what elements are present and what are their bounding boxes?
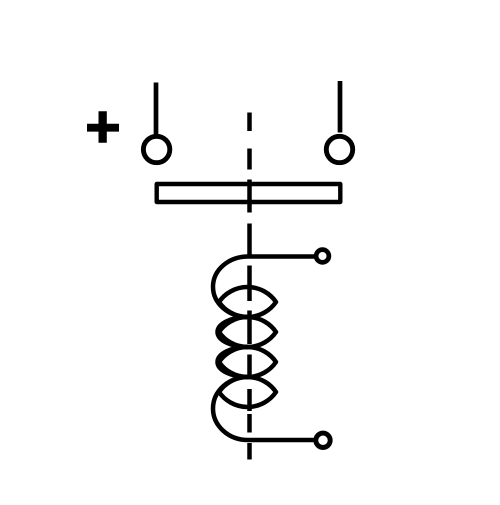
wire: left terminal lead [154, 83, 159, 135]
coil turn 4 [219, 377, 276, 407]
node: right terminal circle [326, 136, 352, 162]
coil L1 [213, 250, 330, 448]
node: left terminal circle [143, 136, 169, 162]
dashed actuator line [247, 113, 252, 460]
coil turn 3 [219, 347, 276, 377]
wire: right terminal lead [338, 81, 343, 133]
coil return arc 2 [218, 347, 249, 377]
coil turn 1 [219, 287, 276, 317]
wire: coil bottom lead [248, 438, 314, 443]
coil return arc 1 [218, 317, 249, 347]
node: coil terminal top circle [316, 250, 329, 263]
coil entry arc [213, 257, 248, 318]
coil turn 2 [219, 317, 276, 347]
coil exit arc [213, 377, 248, 440]
contact bridge bar [157, 184, 341, 202]
wire: coil top lead [248, 254, 316, 259]
node: coil terminal bottom circle [316, 433, 330, 447]
plus polarity symbol [87, 111, 119, 143]
